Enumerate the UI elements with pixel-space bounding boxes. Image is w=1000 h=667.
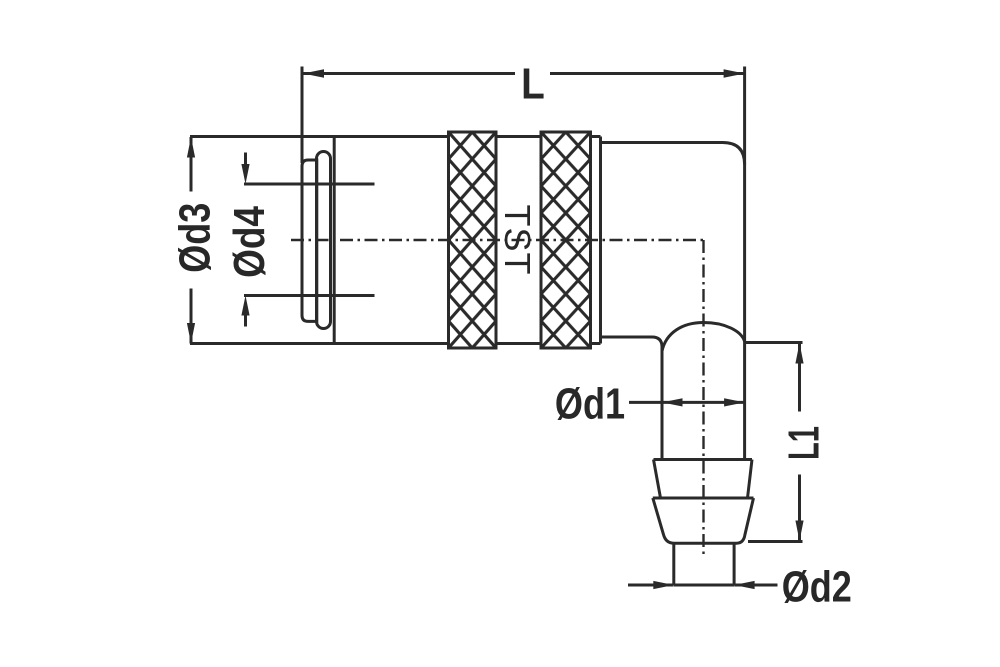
dimension Od3 line [190, 137, 193, 344]
dimension Od1 line [629, 401, 745, 404]
seal washer [302, 160, 317, 321]
arrow Od2 left [653, 581, 674, 589]
outlet stub [674, 543, 734, 585]
arrow L1 top [795, 343, 803, 364]
vertical centerline [702, 240, 704, 558]
arrow Od3 top [187, 137, 195, 158]
dimension L1 line [798, 344, 801, 541]
svg-text:Ød3: Ød3 [170, 203, 219, 273]
svg-text:L1: L1 [778, 426, 828, 460]
svg-text:Ød2: Ød2 [782, 562, 852, 611]
arrow L right [724, 69, 745, 78]
body left face [333, 137, 336, 344]
dimension L line [303, 72, 745, 75]
barb cone 1 [654, 460, 753, 499]
horizontal centerline [291, 239, 704, 241]
right edge and tube right edge [743, 67, 746, 460]
arrow Od4 bottom [241, 296, 249, 316]
arrow L1 bottom [795, 521, 803, 542]
arrow Od4 top [241, 164, 249, 184]
right section top with corner [601, 143, 745, 165]
right section bottom with fillet [601, 337, 663, 347]
knurl band 2 [541, 132, 591, 348]
seal ring stadium [317, 152, 331, 329]
dimension Od4 extension lines [244, 184, 375, 296]
elbow dome [662, 323, 745, 352]
dimension L1 extensions [745, 343, 803, 542]
arrow Od3 bottom [187, 323, 195, 344]
body step face [599, 137, 602, 344]
arrow Od2 right [734, 581, 755, 589]
svg-text:Ød1: Ød1 [555, 379, 625, 428]
body top outline with Ød3 extension [190, 135, 601, 138]
arrow Od1 left [662, 398, 683, 406]
arrow L left [303, 69, 324, 78]
dimension L left extension [301, 67, 304, 164]
body bottom outline with Ød3 extension [190, 342, 601, 345]
svg-text:Ød4: Ød4 [224, 206, 274, 278]
svg-text:L: L [521, 58, 545, 108]
dimension Od2 line [628, 584, 778, 587]
dimension Od4 arrow tails [244, 153, 247, 327]
knurl band 1 [449, 132, 497, 348]
barb cone 2 [653, 498, 754, 543]
tube left edge [661, 347, 664, 460]
svg-text:TST: TST [497, 205, 538, 276]
arrow Od1 right [724, 398, 745, 406]
